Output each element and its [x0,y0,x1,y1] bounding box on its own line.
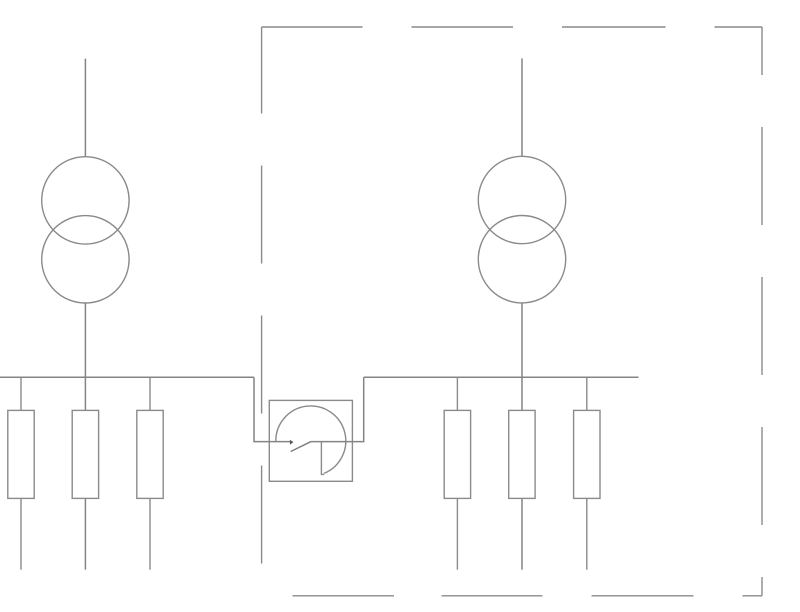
switch S1 rotary arc [276,406,346,473]
enclosure dashed boundary (right edge) [761,27,763,596]
fuse F3 [137,410,163,498]
enclosure dashed boundary (left edge) [261,27,263,564]
bus B [364,376,639,378]
wire: feeder F6 stub [586,377,588,410]
fuse F5 [509,410,535,498]
wire: feeder F5 stub [521,377,523,410]
wire: T1 secondary to bus A [84,303,86,377]
wire: feeder F2 tail [84,498,86,569]
wire: T2 secondary to bus B [521,303,523,377]
transformer T2 [478,156,565,303]
bus A [0,376,254,378]
fuse F1 [8,410,34,498]
wire: bus A drop to switch S1 [254,377,293,441]
wire: feeder F4 stub [456,377,458,410]
wire: feeder F1 stub [20,377,22,410]
wire: switch S1 to bus B [311,377,364,441]
wire: feeder F1 tail [20,498,22,569]
wire: feeder F5 tail [521,498,523,569]
fuse F2 [72,410,98,498]
wire: feeder F3 tail [149,498,151,569]
switch S1 enclosure box [269,400,352,481]
wire: feeder F6 tail [586,498,588,569]
transformer T1 [42,157,129,303]
wire: T2 primary lead [521,58,523,156]
switch S1 arc chord [321,442,324,475]
wire: feeder F4 tail [456,498,458,569]
fuse F4 [444,410,470,498]
wire: feeder F3 stub [149,377,151,410]
fuse F6 [574,410,600,498]
switch S1 blade [291,442,311,452]
enclosure dashed boundary (bottom edge) [293,595,763,597]
enclosure dashed boundary (top edge) [262,26,762,28]
wire: feeder F2 stub [84,377,86,410]
switch S1 contact arrowhead [290,440,293,445]
wire: T1 primary lead [84,59,86,157]
